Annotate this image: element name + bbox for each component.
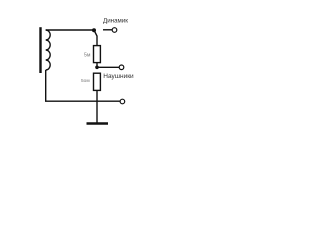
wire elbow from node A down to R1 bbox=[94, 31, 97, 46]
node B junction dot bbox=[95, 66, 99, 70]
wire node B to headphone terminal bbox=[97, 66, 119, 68]
wire top from L1 to node A bbox=[46, 29, 94, 31]
resistor R2 bbox=[94, 73, 101, 90]
wire R2 down through bottom wire to ground bbox=[96, 90, 98, 122]
inductor L1 bbox=[46, 30, 51, 70]
terminal speaker (Динамик) bbox=[112, 28, 117, 33]
svg-text:5ом: 5ом bbox=[81, 78, 90, 84]
node A junction dot bbox=[92, 28, 96, 32]
terminal headphones lower bbox=[120, 99, 125, 104]
svg-text:5м: 5м bbox=[84, 52, 91, 58]
resistor R1 bbox=[94, 46, 101, 63]
wire stub to speaker terminal bbox=[103, 29, 112, 31]
terminal headphones upper bbox=[119, 65, 124, 70]
svg-text:Наушники: Наушники bbox=[103, 73, 134, 80]
inductor L1 core bbox=[39, 27, 41, 73]
svg-text:Динамик: Динамик bbox=[103, 18, 128, 25]
ground bbox=[87, 122, 109, 125]
wire L1 bottom leg bbox=[46, 70, 120, 101]
wire R1 to node B bbox=[96, 63, 98, 68]
